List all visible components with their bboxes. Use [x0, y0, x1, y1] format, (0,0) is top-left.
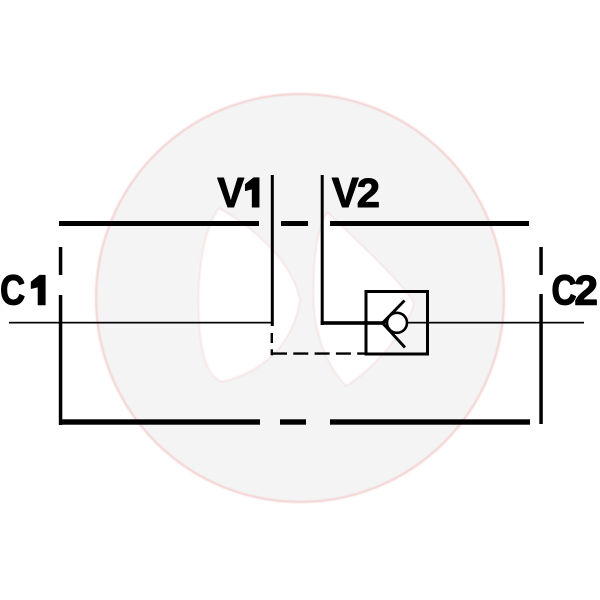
label C1	[2, 275, 45, 305]
label C2	[553, 275, 596, 305]
body outline left edge (dashed)	[59, 247, 63, 425]
watermark right petal shape	[313, 212, 414, 386]
check valve CV1 square body	[366, 292, 428, 355]
pilot line dashed horizontal to check valve	[272, 352, 365, 354]
body outline top edge (thick dashed)	[59, 221, 529, 226]
body outline right edge (dashed)	[539, 247, 543, 424]
node C1 port line (thin)	[9, 322, 272, 324]
body outline bottom edge (thick dashed)	[60, 419, 531, 424]
watermark logo circle	[96, 94, 504, 502]
wire V2 vertical line	[321, 175, 324, 325]
label V1	[218, 178, 260, 207]
check valve CV1 seat lines	[383, 301, 406, 348]
watermark left petal shape	[199, 208, 301, 382]
wire V1 vertical line	[271, 175, 274, 326]
label V2	[332, 178, 378, 207]
check valve CV1 ball	[387, 313, 407, 333]
pilot line dashed vertical from V1	[271, 333, 273, 355]
node C2 port line (thin)	[382, 322, 584, 324]
wire V2 horizontal leg to check valve	[321, 321, 383, 325]
